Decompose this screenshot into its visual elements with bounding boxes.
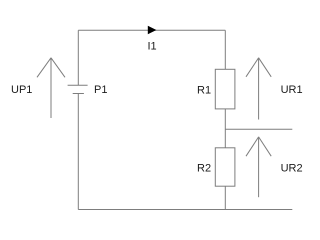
current arrow I1 (filled triangle on top wire) bbox=[148, 26, 157, 35]
svg-text:R2: R2 bbox=[197, 163, 211, 175]
wire: left vertical lower (P1 bottom plate to bottom wire) bbox=[77, 94, 79, 210]
voltage arrow UR2 bbox=[246, 137, 271, 197]
node: middle horizontal stub (junction R1/R2 to right) bbox=[225, 128, 292, 130]
wire: top horizontal bbox=[78, 29, 225, 31]
svg-text:UR1: UR1 bbox=[281, 84, 303, 96]
voltage arrow UP1 bbox=[37, 58, 65, 118]
svg-text:UR2: UR2 bbox=[281, 163, 303, 175]
resistor R2 bbox=[215, 148, 235, 186]
battery P1 (source symbol plates) bbox=[68, 85, 88, 93]
wire: R2 to bottom wire bbox=[224, 186, 226, 209]
svg-text:P1: P1 bbox=[94, 84, 107, 96]
wire: left vertical upper (top wire to P1 top plate) bbox=[77, 30, 79, 85]
svg-text:R1: R1 bbox=[197, 84, 211, 96]
svg-text:UP1: UP1 bbox=[11, 84, 32, 96]
voltage arrow UR1 bbox=[246, 58, 271, 120]
resistor R1 bbox=[215, 69, 235, 109]
svg-text:I1: I1 bbox=[148, 41, 157, 53]
wire: between R1 and R2 bbox=[224, 109, 226, 148]
wire: bottom horizontal bbox=[78, 209, 292, 211]
wire: right vertical upper (top wire to R1) bbox=[224, 30, 226, 69]
